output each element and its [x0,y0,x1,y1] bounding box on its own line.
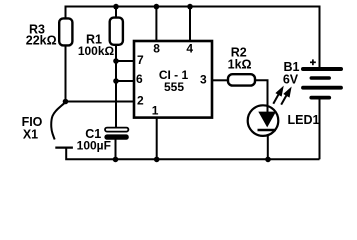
svg-text:6V: 6V [283,72,299,86]
svg-text:555: 555 [164,80,184,94]
svg-text:7: 7 [137,53,144,67]
svg-text:X1: X1 [23,127,38,141]
svg-text:100kΩ: 100kΩ [78,44,115,58]
svg-text:1: 1 [152,103,159,117]
svg-text:8: 8 [153,41,160,55]
svg-text:1kΩ: 1kΩ [228,57,252,71]
svg-text:22kΩ: 22kΩ [26,33,57,47]
svg-text:2: 2 [137,93,144,107]
svg-text:100µF: 100µF [77,139,111,153]
svg-text:3: 3 [200,73,207,87]
svg-text:4: 4 [186,41,193,55]
svg-text:LED1: LED1 [288,113,320,127]
svg-text:6: 6 [136,72,143,86]
